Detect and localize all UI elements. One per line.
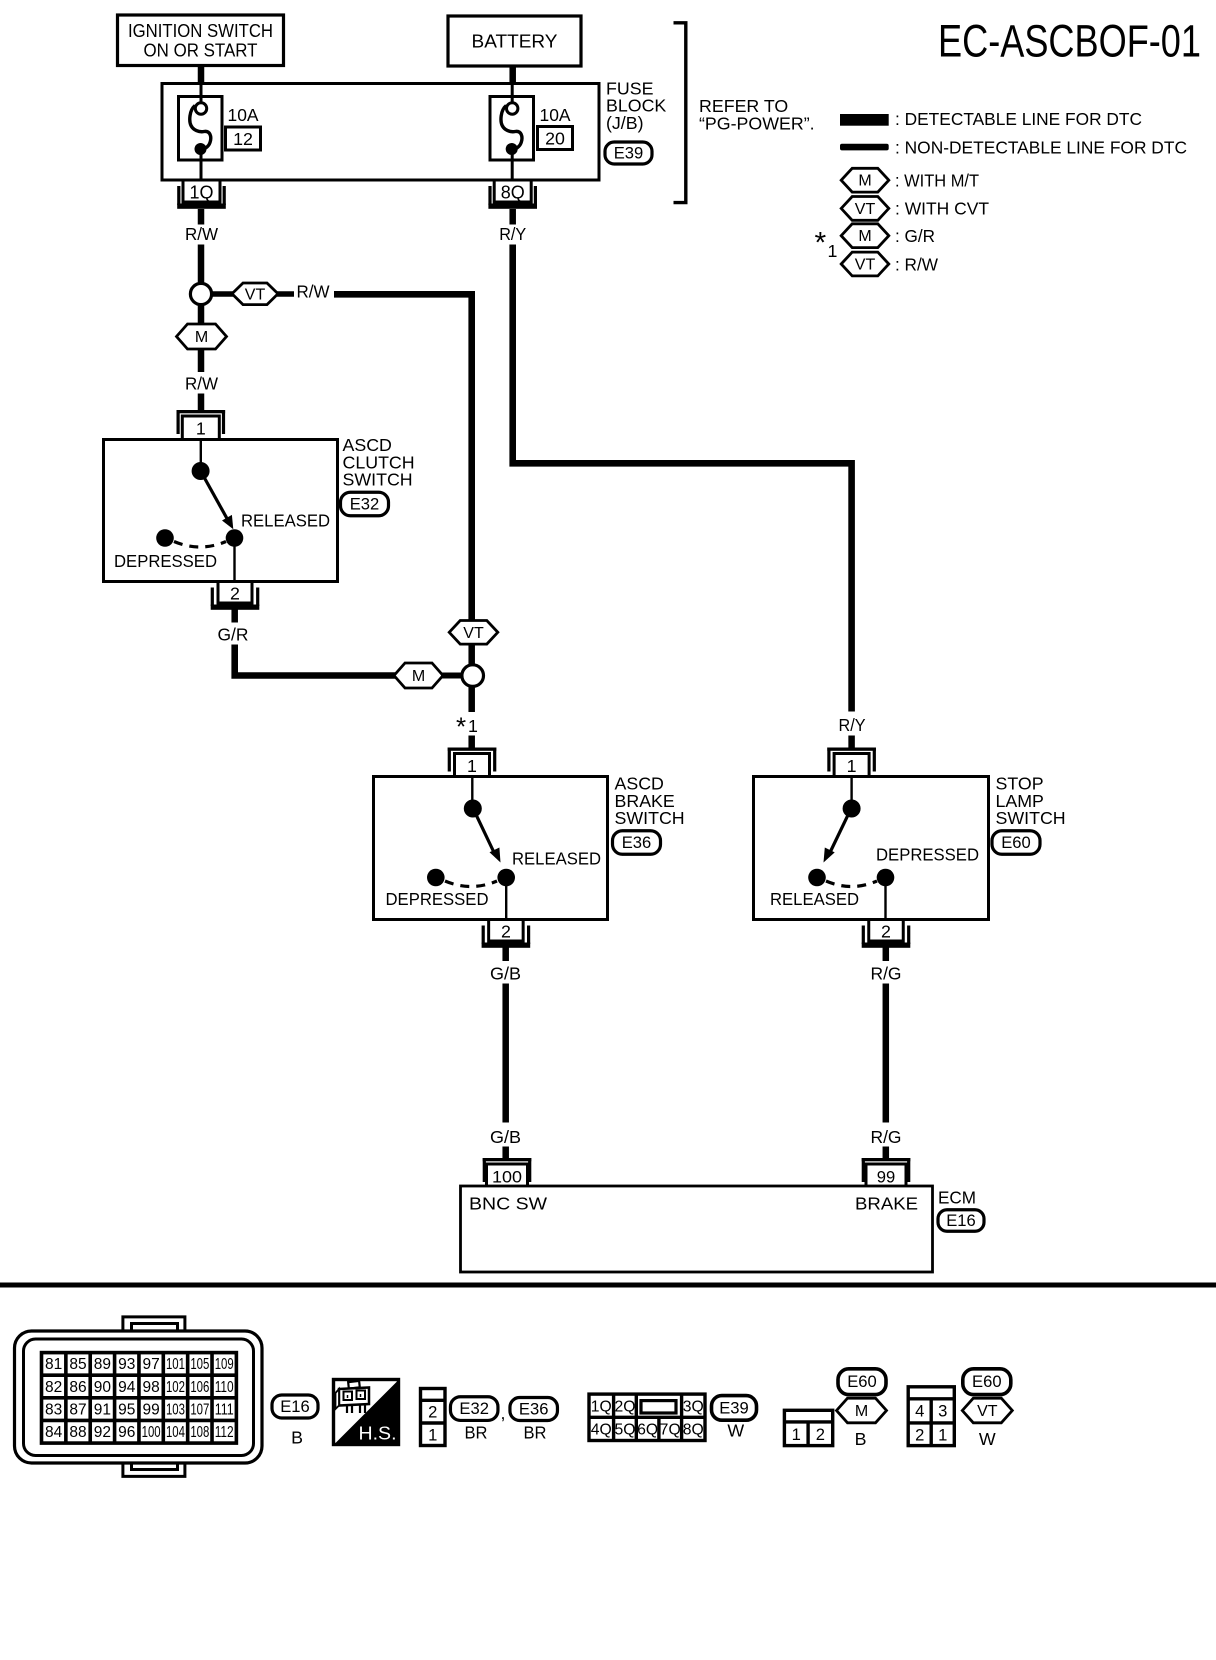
svg-text:B: B: [855, 1429, 867, 1449]
legend tag VT with CVT: [841, 197, 989, 221]
tag M (E60 left pinout): [837, 1398, 887, 1423]
svg-text:103: 103: [166, 1401, 185, 1418]
label FUSE BLOCK (J/B): [606, 79, 666, 133]
svg-text:G/B: G/B: [490, 964, 521, 984]
svg-text:83: 83: [45, 1401, 62, 1418]
svg-text:91: 91: [94, 1401, 111, 1418]
label R/W (CVT branch): [297, 282, 330, 302]
svg-text:88: 88: [69, 1424, 86, 1441]
svg-text:106: 106: [190, 1379, 209, 1396]
svg-text:10A: 10A: [228, 105, 259, 125]
svg-text:: WITH M/T: : WITH M/T: [895, 171, 979, 191]
legend asterisk 1: [815, 227, 838, 262]
svg-text:84: 84: [45, 1424, 63, 1441]
svg-text:7Q: 7Q: [660, 1422, 681, 1439]
svg-text:DEPRESSED: DEPRESSED: [386, 889, 489, 909]
stop lamp switch arm arrow (released): [824, 816, 848, 863]
ECM connector E16 pinout (81-112): [15, 1317, 263, 1477]
svg-text:R/W: R/W: [185, 374, 218, 394]
connector id oval E60: [992, 831, 1040, 855]
label G/B (lower): [490, 1127, 521, 1147]
stop lamp pin 2 lead: [884, 885, 886, 920]
clutch switch pin 1 lead: [200, 441, 202, 464]
svg-text:VT: VT: [855, 201, 876, 218]
svg-text:E60: E60: [972, 1372, 1002, 1391]
svg-text:2: 2: [428, 1403, 437, 1422]
svg-text:E32: E32: [459, 1399, 489, 1418]
label 10A (left fuse): [228, 105, 259, 125]
connector E60 pinout (1 2): [784, 1410, 832, 1445]
svg-text:1: 1: [938, 1426, 947, 1445]
svg-text:R/W: R/W: [297, 282, 330, 302]
svg-text:IGNITION SWITCH: IGNITION SWITCH: [128, 21, 273, 41]
svg-text:1: 1: [468, 716, 478, 736]
svg-text:: DETECTABLE LINE FOR DTC: : DETECTABLE LINE FOR DTC: [895, 109, 1142, 129]
label 10A (right fuse): [540, 105, 571, 125]
ASCD brake switch box: [374, 777, 608, 920]
connector 1 (brake switch E36): [448, 748, 497, 778]
svg-text:85: 85: [69, 1356, 86, 1373]
svg-text:2: 2: [915, 1426, 924, 1445]
legend tag VT = R/W: [841, 252, 938, 276]
clutch switch dashed throw arc: [174, 542, 226, 548]
label R/G (upper): [871, 964, 902, 984]
connector 8Q: [488, 180, 537, 209]
svg-text:E36: E36: [622, 833, 652, 852]
wire R/G to ECM: [883, 948, 890, 1159]
wire VT tag to R/W label: [277, 291, 294, 297]
svg-text:95: 95: [118, 1401, 135, 1418]
connector id oval E16: [938, 1210, 984, 1232]
connector E60 pinout (4 3 / 2 1): [908, 1387, 954, 1446]
svg-text:2: 2: [881, 922, 891, 942]
wire G/B to ECM: [502, 948, 509, 1159]
stop lamp switch pin 1 lead: [850, 778, 852, 801]
svg-text:5Q: 5Q: [615, 1422, 636, 1439]
svg-text:1: 1: [792, 1425, 801, 1444]
connector id oval E32: [341, 492, 389, 516]
svg-text:E39: E39: [614, 144, 644, 163]
connector 2 (stop lamp switch E60): [862, 920, 911, 948]
svg-text:DEPRESSED: DEPRESSED: [876, 845, 979, 865]
connector 1 (clutch switch E32): [177, 410, 226, 440]
svg-text:*: *: [456, 712, 466, 742]
svg-text:107: 107: [190, 1401, 209, 1418]
svg-text:8Q: 8Q: [683, 1422, 704, 1439]
wire ignition switch to fuse block: [198, 66, 205, 85]
svg-text:1: 1: [828, 241, 838, 261]
brake switch common contact: [464, 800, 482, 818]
brake switch pin 2 lead: [505, 885, 507, 920]
label B (E60 colour): [855, 1429, 867, 1449]
svg-text:: R/W: : R/W: [895, 255, 938, 275]
label DEPRESSED (stop lamp): [876, 845, 979, 865]
wire R/W CVT branch thick run: [334, 294, 472, 620]
fuse block J/B box: [162, 84, 599, 181]
svg-text:1: 1: [196, 419, 206, 439]
label DEPRESSED (clutch): [114, 551, 217, 571]
ECM box: [461, 1186, 933, 1272]
svg-text:SWITCH: SWITCH: [615, 808, 685, 828]
svg-text:2: 2: [501, 922, 511, 942]
svg-text:20: 20: [545, 129, 565, 149]
label R/Y (stop lamp): [839, 715, 866, 735]
label STOP LAMP SWITCH: [996, 774, 1066, 829]
label W (E60 colour): [979, 1429, 996, 1449]
label R/Y (8Q): [499, 224, 526, 244]
svg-text:98: 98: [142, 1379, 159, 1396]
stop lamp dashed throw arc: [826, 881, 877, 887]
brake switch pin 1 lead: [471, 778, 473, 801]
connector 1Q: [177, 180, 226, 209]
svg-text:E60: E60: [1001, 833, 1031, 852]
clutch switch common contact: [192, 462, 210, 480]
svg-text:4Q: 4Q: [591, 1422, 612, 1439]
fuse F20 10A (right): [490, 85, 534, 202]
svg-text:,: ,: [501, 1403, 506, 1423]
svg-text:RELEASED: RELEASED: [770, 889, 859, 909]
wire VT tag to junction 2: [468, 644, 475, 666]
svg-text:1: 1: [467, 756, 477, 776]
label REFER TO PG-POWER: [699, 96, 815, 134]
svg-text:81: 81: [45, 1356, 62, 1373]
connector id oval E16 (pinout): [272, 1395, 318, 1418]
svg-text:BR: BR: [524, 1423, 547, 1443]
svg-text:W: W: [979, 1429, 996, 1449]
svg-text:97: 97: [142, 1356, 159, 1373]
svg-text:1Q: 1Q: [189, 183, 213, 203]
fuse number box 12: [226, 127, 261, 150]
svg-text:H.S.: H.S.: [359, 1423, 397, 1444]
svg-text:1: 1: [428, 1425, 437, 1444]
wire battery to fuse block: [509, 66, 516, 84]
svg-text:R/G: R/G: [871, 1127, 902, 1147]
svg-text:: G/R: : G/R: [895, 226, 935, 246]
legend tag M = G/R: [841, 224, 935, 248]
svg-text:96: 96: [118, 1424, 135, 1441]
svg-text:8Q: 8Q: [501, 183, 525, 203]
svg-text:*: *: [815, 227, 827, 260]
title EC-ASCBOF-01: [938, 16, 1201, 67]
label G/B (upper): [490, 964, 521, 984]
tag M (M/T branch): [177, 305, 227, 372]
svg-text:1: 1: [847, 756, 857, 776]
svg-text:101: 101: [166, 1356, 185, 1373]
svg-text:E36: E36: [519, 1400, 549, 1419]
stop lamp depressed contact: [877, 869, 895, 887]
svg-text:104: 104: [166, 1424, 185, 1441]
svg-text:89: 89: [94, 1356, 111, 1373]
svg-text:M: M: [858, 228, 871, 245]
svg-text:BATTERY: BATTERY: [472, 32, 558, 52]
label RELEASED (clutch): [241, 511, 330, 531]
svg-text:99: 99: [877, 1168, 895, 1187]
svg-text:12: 12: [233, 129, 253, 149]
separator line: [0, 1283, 1216, 1288]
connector 2 (brake switch E36): [482, 920, 531, 948]
svg-text:3Q: 3Q: [683, 1399, 704, 1416]
svg-text:87: 87: [69, 1401, 86, 1418]
svg-text:W: W: [727, 1421, 744, 1441]
svg-text:EC-ASCBOF-01: EC-ASCBOF-01: [938, 16, 1201, 67]
svg-text:ON OR START: ON OR START: [144, 41, 258, 61]
svg-text:R/W: R/W: [185, 224, 218, 244]
connector 100 (ECM): [483, 1158, 532, 1188]
svg-text:: NON-DETECTABLE LINE FOR DTC: : NON-DETECTABLE LINE FOR DTC: [895, 137, 1187, 157]
svg-text:VT: VT: [463, 625, 484, 642]
svg-text:VT: VT: [977, 1403, 998, 1420]
label B (E16 colour): [291, 1428, 303, 1448]
label RELEASED (brake): [512, 849, 601, 869]
H.S. harness symbol: [334, 1380, 399, 1445]
svg-text:112: 112: [215, 1424, 234, 1441]
brake switch arm arrow (released): [477, 816, 501, 863]
svg-text:VT: VT: [855, 257, 876, 274]
wire R/Y run to stop lamp switch: [509, 209, 854, 749]
fuse F12 10A (left): [179, 85, 223, 202]
connector id oval E60 (left pinout): [838, 1369, 886, 1395]
svg-text:R/Y: R/Y: [499, 224, 526, 244]
tag VT (CVT branch): [232, 283, 278, 305]
clutch switch pin 2 lead: [233, 545, 235, 582]
svg-text:E60: E60: [847, 1372, 877, 1391]
battery box: [448, 16, 581, 66]
svg-text:RELEASED: RELEASED: [512, 849, 601, 869]
label BR BR (colours): [465, 1423, 547, 1443]
svg-text:E32: E32: [350, 495, 380, 514]
svg-text:M: M: [858, 173, 871, 190]
tag VT (R/W to brake switch): [449, 621, 498, 645]
svg-text:“PG-POWER”.: “PG-POWER”.: [699, 114, 815, 134]
legend non-detectable line bar: [840, 137, 1187, 157]
connector E39 pinout (1Q-8Q): [589, 1394, 705, 1440]
label R/W (1Q): [185, 224, 218, 244]
svg-text:3: 3: [938, 1402, 947, 1421]
label W (E39 colour): [727, 1421, 744, 1441]
label ASCD BRAKE SWITCH: [615, 774, 685, 829]
label DEPRESSED (brake): [386, 889, 489, 909]
svg-text:M: M: [412, 668, 425, 685]
svg-text:ECM: ECM: [938, 1188, 976, 1208]
svg-text:99: 99: [142, 1401, 159, 1418]
stop lamp released contact: [808, 869, 826, 887]
svg-text:DEPRESSED: DEPRESSED: [114, 551, 217, 571]
legend tag M with M/T: [841, 168, 979, 192]
label R/G (lower): [871, 1127, 902, 1147]
svg-text:86: 86: [69, 1379, 86, 1396]
fuse number box 20: [538, 127, 573, 150]
svg-text:BR: BR: [465, 1423, 488, 1443]
brake switch depressed contact: [427, 869, 445, 887]
svg-text:SWITCH: SWITCH: [996, 808, 1066, 828]
tag VT (E60 right pinout): [962, 1398, 1012, 1423]
wire R/W to connector 1 E32: [198, 394, 205, 411]
tag M (G/R to brake switch): [394, 663, 443, 688]
svg-text:10A: 10A: [540, 105, 571, 125]
svg-text:2: 2: [816, 1425, 825, 1444]
wire junction to VT tag: [211, 291, 233, 297]
wire M tag to junction 2: [441, 673, 462, 679]
svg-text:G/B: G/B: [490, 1127, 521, 1147]
svg-text:: WITH CVT: : WITH CVT: [895, 199, 989, 219]
label ASCD CLUTCH SWITCH: [343, 435, 415, 490]
bracket refer to PG-POWER: [674, 23, 686, 203]
connector id oval E60 (right pinout): [963, 1369, 1011, 1395]
legend detectable line bar: [840, 109, 1142, 129]
svg-text:105: 105: [190, 1356, 209, 1373]
svg-text:M: M: [195, 329, 208, 346]
ignition switch box: [118, 15, 284, 66]
stop lamp switch box: [754, 777, 989, 920]
svg-text:92: 92: [94, 1424, 111, 1441]
connector id oval E39 (pinout): [712, 1396, 757, 1421]
svg-text:SWITCH: SWITCH: [343, 470, 413, 490]
svg-text:R/Y: R/Y: [839, 715, 866, 735]
junction node R/W split: [190, 283, 211, 304]
svg-text:93: 93: [118, 1356, 135, 1373]
clutch switch depressed contact: [156, 529, 174, 547]
wire junction 2 to connector 1 E36: [468, 687, 475, 749]
stop lamp switch common contact: [843, 800, 861, 818]
svg-text:100: 100: [142, 1424, 161, 1441]
wire G/R: [231, 610, 396, 676]
svg-text:M: M: [855, 1403, 868, 1420]
connector id oval E36 (pinout): [510, 1398, 558, 1421]
connector 2 (clutch switch E32): [211, 582, 260, 610]
svg-text:102: 102: [166, 1379, 185, 1396]
svg-text:(J/B): (J/B): [606, 113, 644, 133]
brake switch dashed throw arc: [445, 881, 497, 887]
connector id oval E32 (pinout): [450, 1397, 505, 1423]
svg-text:B: B: [291, 1428, 303, 1448]
svg-text:94: 94: [118, 1379, 136, 1396]
brake switch released contact: [497, 869, 515, 887]
connector 1 (stop lamp switch E60): [827, 748, 876, 778]
clutch switch released contact: [226, 529, 244, 547]
label *1: [456, 712, 478, 742]
svg-text:110: 110: [215, 1379, 234, 1396]
connector E32/E36 pinout (2/1): [421, 1389, 446, 1446]
svg-text:E16: E16: [946, 1211, 976, 1230]
svg-text:108: 108: [190, 1424, 209, 1441]
connector 99 (ECM): [862, 1158, 911, 1188]
svg-text:90: 90: [94, 1379, 112, 1396]
svg-text:BRAKE: BRAKE: [855, 1194, 918, 1214]
label G/R: [218, 625, 249, 645]
svg-text:1Q: 1Q: [591, 1399, 612, 1416]
ASCD clutch switch box: [104, 440, 338, 582]
connector id oval E36: [613, 831, 661, 855]
svg-text:109: 109: [215, 1356, 234, 1373]
svg-text:4: 4: [915, 1402, 924, 1421]
svg-text:2: 2: [230, 584, 240, 604]
label R/W (to clutch switch): [185, 374, 218, 394]
svg-text:RELEASED: RELEASED: [241, 511, 330, 531]
svg-text:BNC SW: BNC SW: [469, 1194, 547, 1214]
svg-text:E16: E16: [280, 1397, 310, 1416]
svg-text:111: 111: [215, 1401, 234, 1418]
svg-text:100: 100: [492, 1168, 522, 1187]
svg-text:82: 82: [45, 1379, 62, 1396]
svg-text:2Q: 2Q: [615, 1399, 636, 1416]
svg-text:R/G: R/G: [871, 964, 902, 984]
connector id oval E39 (fuse block): [605, 142, 652, 164]
label ECM: [938, 1188, 976, 1208]
clutch switch arm arrow (released): [205, 478, 234, 529]
svg-text:E39: E39: [719, 1398, 749, 1417]
label RELEASED (stop lamp): [770, 889, 859, 909]
wire R/W 1Q to junction: [198, 209, 205, 284]
svg-text:6Q: 6Q: [637, 1422, 658, 1439]
svg-text:G/R: G/R: [218, 625, 249, 645]
junction node 2: [462, 665, 484, 687]
svg-text:VT: VT: [245, 286, 266, 303]
